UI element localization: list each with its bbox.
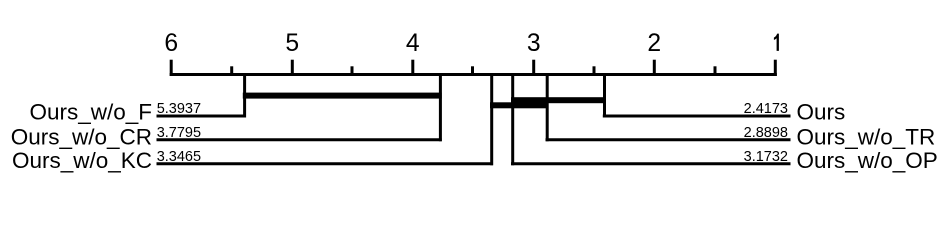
minor tick 4.5	[351, 66, 354, 76]
svg-text:3.7795: 3.7795	[157, 125, 201, 141]
svg-text:5.3937: 5.3937	[157, 101, 201, 117]
major tick 5	[291, 60, 294, 76]
major tick 1	[774, 60, 777, 76]
row line Ours_w/o_OP	[511, 162, 791, 165]
clique bar Ours_w/o_F to Ours_w/o_CR	[243, 93, 442, 99]
row line Ours	[603, 115, 791, 118]
major tick 2	[653, 60, 656, 76]
drop line Ours_w/o_TR	[546, 73, 549, 141]
svg-text:4: 4	[406, 30, 420, 57]
svg-text:Ours_w/o_TR: Ours_w/o_TR	[797, 124, 936, 149]
svg-text:Ours_w/o_CR: Ours_w/o_CR	[11, 124, 152, 149]
row line Ours_w/o_KC	[157, 162, 494, 165]
clique bar Ours_w/o_OP to Ours	[511, 97, 606, 103]
minor tick 2.5	[593, 66, 596, 76]
major tick 3	[532, 60, 535, 76]
drop line Ours_w/o_CR	[439, 73, 442, 141]
axis main line	[170, 73, 777, 76]
clique bar Ours_w/o_KC to Ours_w/o_TR	[490, 102, 549, 108]
minor tick 5.5	[230, 66, 233, 76]
minor tick 1.5	[714, 66, 717, 76]
row line Ours_w/o_F	[157, 115, 246, 118]
drop line Ours_w/o_F	[243, 73, 246, 118]
svg-text:3.1732: 3.1732	[744, 149, 788, 165]
major tick 4	[411, 60, 414, 76]
major tick 6	[170, 60, 173, 76]
svg-text:2.4173: 2.4173	[744, 101, 788, 117]
svg-text:Ours_w/o_KC: Ours_w/o_KC	[12, 148, 152, 173]
drop line Ours_w/o_KC	[490, 73, 493, 165]
row line Ours_w/o_TR	[546, 138, 791, 141]
drop line Ours	[603, 73, 606, 118]
svg-text:2: 2	[647, 30, 661, 57]
svg-text:Ours_w/o_OP: Ours_w/o_OP	[797, 148, 938, 173]
axis number 1	[774, 34, 779, 51]
row line Ours_w/o_CR	[157, 138, 442, 141]
svg-text:3: 3	[527, 30, 541, 57]
svg-text:Ours_w/o_F: Ours_w/o_F	[29, 100, 152, 125]
svg-text:3.3465: 3.3465	[157, 149, 201, 165]
drop line Ours_w/o_OP	[511, 73, 514, 165]
minor tick 3.5	[471, 66, 474, 76]
svg-text:Ours: Ours	[797, 100, 846, 125]
svg-text:6: 6	[164, 30, 178, 57]
svg-text:5: 5	[285, 30, 299, 57]
svg-text:2.8898: 2.8898	[744, 125, 788, 141]
